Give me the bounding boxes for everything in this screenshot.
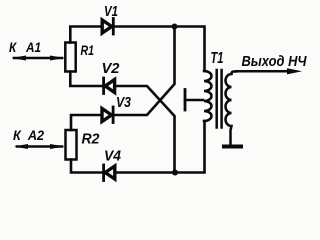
- wire R1 top to V1: [70, 27, 101, 43]
- wire V1 to primary top (top rail): [115, 27, 205, 72]
- wire R2 bottom to V4: [71, 160, 102, 173]
- svg-text:V4: V4: [104, 148, 122, 165]
- output arrowhead: [287, 68, 302, 74]
- input arrow A2: [14, 144, 65, 149]
- wire V2 through crossing down to bottom rail: [116, 86, 175, 173]
- diode V3: [102, 107, 113, 123]
- svg-text:R1: R1: [81, 42, 95, 58]
- resistor R1: [65, 43, 75, 72]
- svg-text:R2: R2: [82, 131, 101, 148]
- svg-text:V1: V1: [104, 3, 118, 20]
- transformer T1 primary winding: [204, 71, 212, 121]
- node top junction: [172, 24, 178, 30]
- wire V4 to primary bottom (bottom rail): [116, 121, 205, 173]
- ground: [224, 145, 241, 149]
- resistor R2: [66, 130, 77, 160]
- svg-text:К А2: К А2: [13, 128, 44, 143]
- center tap terminal bar: [184, 90, 187, 111]
- transformer core: [217, 70, 222, 128]
- output wire: [236, 70, 290, 73]
- transformer T1 secondary winding: [226, 72, 236, 145]
- wire R1 bottom to V2: [70, 72, 102, 87]
- svg-text:Т1: Т1: [211, 50, 224, 67]
- wire V3 through crossing up to top rail: [114, 27, 175, 116]
- diode V1: [102, 19, 113, 35]
- svg-text:V3: V3: [116, 94, 132, 111]
- node bottom junction: [172, 170, 178, 176]
- svg-text:К А1: К А1: [9, 40, 41, 55]
- diode V4: [104, 165, 115, 181]
- input arrow A1: [12, 56, 65, 61]
- svg-text:Выход НЧ: Выход НЧ: [242, 53, 307, 70]
- svg-text:V2: V2: [102, 60, 121, 77]
- wire R2 top to V3: [71, 115, 102, 130]
- diode V2: [104, 78, 115, 94]
- wire center tap: [185, 99, 203, 102]
